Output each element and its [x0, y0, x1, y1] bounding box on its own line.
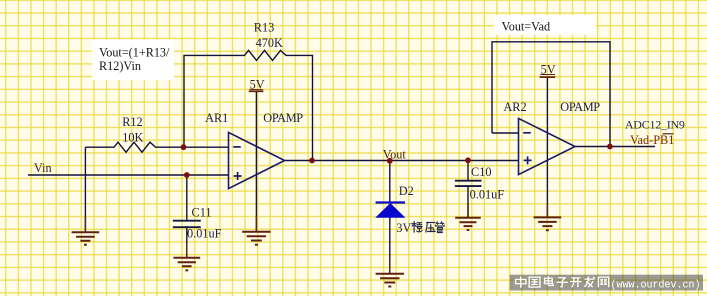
svg-text:R13: R13	[254, 21, 274, 35]
svg-text:AR2: AR2	[503, 100, 526, 114]
svg-text:ADC12_IN9: ADC12_IN9	[625, 117, 685, 131]
svg-text:OPAMP: OPAMP	[263, 111, 303, 125]
svg-text:Vad-PB1: Vad-PB1	[630, 133, 674, 147]
svg-text:0.01uF: 0.01uF	[187, 226, 222, 240]
svg-text:Vout: Vout	[383, 147, 407, 161]
svg-text:(www.ourdev.cn): (www.ourdev.cn)	[611, 280, 701, 292]
svg-text:Vin: Vin	[34, 161, 52, 175]
svg-text:R12)Vin: R12)Vin	[99, 59, 141, 73]
svg-text:OPAMP: OPAMP	[560, 100, 600, 114]
svg-text:470K: 470K	[256, 36, 283, 50]
svg-text:C10: C10	[471, 165, 492, 179]
svg-text:5V: 5V	[250, 78, 265, 92]
svg-text:Vout=Vad: Vout=Vad	[502, 19, 551, 33]
svg-text:R12: R12	[122, 115, 143, 129]
svg-text:Vout=(1+R13/: Vout=(1+R13/	[99, 45, 170, 59]
svg-text:AR1: AR1	[205, 111, 228, 125]
svg-text:10K: 10K	[122, 130, 143, 144]
svg-text:5V: 5V	[541, 63, 556, 77]
svg-text:3V: 3V	[396, 221, 411, 235]
svg-text:C11: C11	[192, 206, 212, 220]
svg-text:D2: D2	[399, 184, 414, 198]
svg-text:0.01uF: 0.01uF	[470, 188, 505, 202]
